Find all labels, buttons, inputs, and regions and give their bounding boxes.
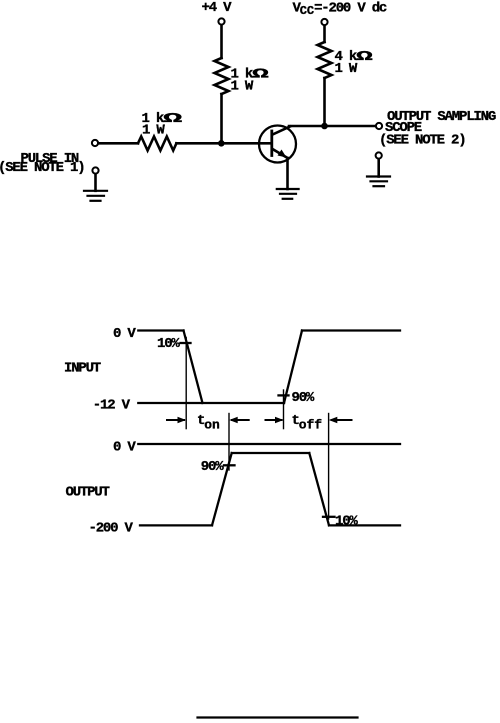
svg-text:toff: toff — [292, 413, 323, 433]
wire input terminal to R1 — [99, 142, 138, 145]
wire VCC to R3 — [323, 26, 326, 42]
bottom rule — [198, 716, 358, 718]
svg-text:-12 V: -12 V — [93, 397, 131, 413]
wire scope terminal to ground — [377, 159, 380, 176]
svg-text:0 V: 0 V — [113, 440, 136, 456]
ground pulse input — [84, 191, 107, 201]
input 10% tick — [181, 342, 191, 344]
output low line left — [140, 524, 212, 526]
junction base node — [218, 140, 225, 147]
svg-text:0 V: 0 V — [113, 326, 136, 342]
input 0V line right — [302, 329, 400, 331]
wire R2 to base node — [220, 94, 223, 143]
svg-text:1 W: 1 W — [142, 123, 165, 139]
svg-text:90%: 90% — [292, 390, 315, 406]
svg-text:ton: ton — [197, 413, 220, 433]
output low line right — [329, 524, 400, 526]
input low level line — [138, 402, 284, 404]
wire R1 to base — [176, 142, 270, 145]
svg-text:INPUT: INPUT — [64, 361, 101, 377]
svg-text:90%: 90% — [201, 459, 224, 475]
output 90% tick — [224, 464, 235, 466]
t_off arrow right — [332, 419, 352, 421]
svg-text:(SEE NOTE 2): (SEE NOTE 2) — [379, 132, 465, 148]
input rising edge — [284, 331, 302, 404]
terminal +4V — [218, 18, 224, 24]
reference line output 10% — [328, 414, 330, 520]
wire +4V to R2 — [220, 25, 223, 58]
svg-text:1 W: 1 W — [231, 79, 254, 95]
svg-text:(SEE NOTE 1): (SEE NOTE 1) — [0, 160, 84, 176]
input 90% tick — [279, 394, 289, 396]
output 0V reference line — [138, 443, 400, 445]
t_on arrow left — [167, 417, 352, 423]
reference line input 90% — [283, 390, 285, 429]
output 10% tick — [323, 516, 335, 518]
input 0V line left — [138, 329, 183, 331]
junction collector node — [321, 123, 328, 130]
reference line input 10% — [185, 338, 187, 429]
output rising edge — [212, 453, 232, 525]
terminal scope ground — [376, 152, 382, 158]
ground scope — [367, 177, 390, 187]
svg-text:OUTPUT: OUTPUT — [66, 485, 110, 501]
wire collector node to output terminal — [289, 125, 375, 128]
output falling edge — [309, 453, 329, 525]
svg-text:Ω: Ω — [356, 49, 372, 65]
svg-text:Ω: Ω — [163, 111, 182, 127]
transistor Q1 — [259, 126, 296, 163]
terminal output — [376, 123, 382, 129]
svg-text:10%: 10% — [157, 336, 180, 352]
terminal pulse ground — [92, 167, 98, 173]
svg-text:1 W: 1 W — [335, 61, 358, 77]
wire emitter to ground — [286, 158, 289, 189]
t_off arrow left — [266, 419, 282, 421]
output high line — [232, 452, 310, 454]
terminal pulse input — [92, 140, 98, 146]
wire R3 to collector node — [323, 78, 326, 126]
resistor R2 1 kOhm 1 W (vertical) — [215, 58, 229, 94]
svg-text:+4 V: +4 V — [202, 0, 233, 16]
resistor R1 1 kOhm 1 W (horizontal) — [138, 137, 176, 151]
t_on arrow right — [232, 419, 249, 421]
svg-text:10%: 10% — [335, 513, 358, 529]
svg-text:Ω: Ω — [252, 66, 268, 82]
resistor R3 4 kOhm 1 W (vertical) — [318, 42, 332, 78]
ground emitter — [277, 189, 299, 199]
reference line output 90% — [228, 414, 230, 471]
input falling edge — [184, 331, 203, 404]
terminal VCC — [321, 19, 327, 25]
wire pulse terminal to ground — [94, 174, 97, 191]
svg-text:VCC=-200 V dc: VCC=-200 V dc — [293, 0, 387, 18]
svg-text:-200 V: -200 V — [89, 521, 134, 537]
